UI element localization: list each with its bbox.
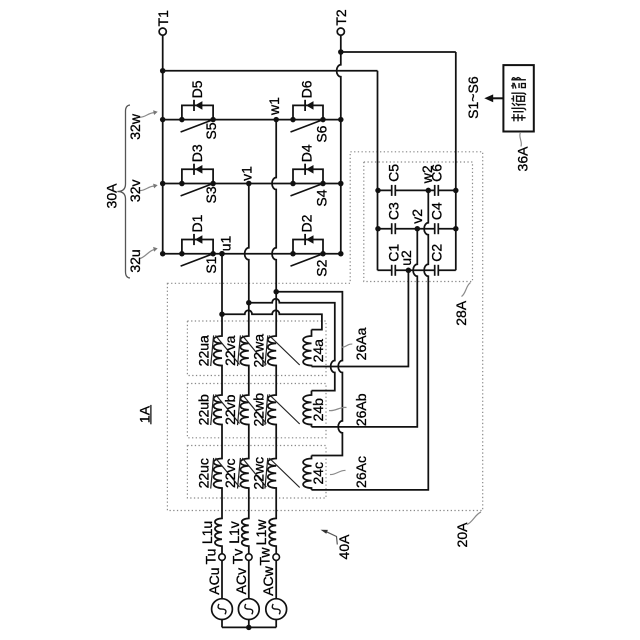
svg-text:S5: S5 xyxy=(203,122,219,139)
svg-text:22ub: 22ub xyxy=(196,394,212,425)
svg-text:S6: S6 xyxy=(314,125,330,142)
svg-text:L1u: L1u xyxy=(199,521,215,544)
svg-text:1A: 1A xyxy=(136,405,152,423)
svg-text:28A: 28A xyxy=(453,300,469,326)
svg-text:S4: S4 xyxy=(314,189,330,206)
svg-text:D3: D3 xyxy=(189,144,205,162)
svg-text:22va: 22va xyxy=(222,335,238,366)
svg-text:24a: 24a xyxy=(310,339,326,363)
svg-text:D2: D2 xyxy=(299,214,315,232)
svg-text:22vb: 22vb xyxy=(222,394,238,425)
svg-text:24b: 24b xyxy=(310,398,326,422)
svg-text:32v: 32v xyxy=(127,180,143,203)
svg-text:T2: T2 xyxy=(333,9,349,26)
svg-text:L1v: L1v xyxy=(226,521,242,544)
svg-text:ACw: ACw xyxy=(260,565,276,595)
svg-text:T1: T1 xyxy=(155,10,171,27)
svg-text:D1: D1 xyxy=(189,214,205,232)
svg-text:Tw: Tw xyxy=(257,547,273,566)
svg-text:D6: D6 xyxy=(299,80,315,98)
svg-text:C5: C5 xyxy=(386,164,402,182)
svg-text:L1w: L1w xyxy=(253,519,269,546)
svg-text:C3: C3 xyxy=(386,202,402,220)
svg-text:v1: v1 xyxy=(239,166,255,181)
svg-text:32u: 32u xyxy=(127,249,143,272)
svg-text:u2: u2 xyxy=(398,250,414,266)
svg-text:ACu: ACu xyxy=(206,567,222,594)
svg-text:40A: 40A xyxy=(336,534,352,560)
svg-text:S1~S6: S1~S6 xyxy=(465,76,481,119)
svg-text:D4: D4 xyxy=(299,144,315,162)
svg-text:22ua: 22ua xyxy=(196,335,212,366)
svg-text:S2: S2 xyxy=(314,259,330,276)
svg-text:D5: D5 xyxy=(189,80,205,98)
svg-text:v2: v2 xyxy=(409,209,425,224)
svg-text:22vc: 22vc xyxy=(222,458,238,488)
svg-text:w1: w1 xyxy=(266,97,282,116)
svg-text:22wa: 22wa xyxy=(251,334,267,368)
svg-text:C2: C2 xyxy=(429,244,445,262)
svg-text:26Ab: 26Ab xyxy=(353,393,369,426)
svg-text:30A: 30A xyxy=(104,183,120,209)
svg-text:S3: S3 xyxy=(203,186,219,203)
svg-text:w2: w2 xyxy=(419,165,435,184)
svg-text:32w: 32w xyxy=(127,113,143,140)
svg-text:22uc: 22uc xyxy=(196,458,212,488)
svg-text:26Ac: 26Ac xyxy=(353,456,369,488)
svg-text:22wc: 22wc xyxy=(251,457,267,490)
svg-text:Tu: Tu xyxy=(202,549,218,565)
svg-text:36A: 36A xyxy=(514,146,530,172)
svg-text:22wb: 22wb xyxy=(251,393,267,427)
svg-text:Tv: Tv xyxy=(229,549,245,565)
svg-text:C4: C4 xyxy=(429,202,445,220)
svg-text:24c: 24c xyxy=(310,462,326,485)
svg-text:ACv: ACv xyxy=(233,568,249,594)
svg-text:20A: 20A xyxy=(454,522,470,548)
svg-text:S1: S1 xyxy=(203,256,219,273)
svg-text:u1: u1 xyxy=(217,236,233,252)
svg-text:26Aa: 26Aa xyxy=(353,327,369,360)
